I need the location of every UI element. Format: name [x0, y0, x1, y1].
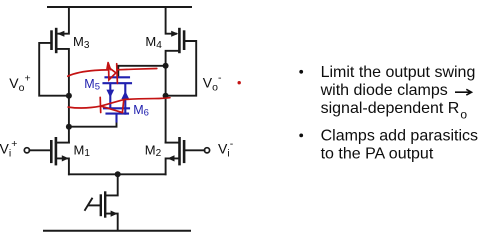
transistor M1 gate bar	[50, 141, 53, 162]
wire Vi+ terminal to M1 gate	[29, 149, 51, 151]
wire M1 source to tail node	[56, 158, 69, 174]
transistor M5 source wire down	[109, 84, 111, 108]
transistor M2 channel bar	[178, 138, 181, 164]
transistor M3 channel bar	[55, 29, 58, 52]
transistor M5 channel bar	[106, 76, 130, 78]
transistor M4 source arrow (PMOS)	[171, 31, 178, 37]
svg-text:to the PA output: to the PA output	[321, 146, 434, 163]
junction dot tail node	[115, 171, 121, 177]
wire M3 gate to Vo+ node	[39, 43, 69, 96]
tail gate bias slash	[85, 199, 92, 210]
transistor M4 channel bar	[178, 29, 181, 52]
tail transistor source arrow (NMOS)	[111, 211, 118, 217]
tail transistor channel bar	[104, 193, 106, 217]
red diode D2 right edge	[122, 100, 123, 113]
svg-text:Limit the output swing: Limit the output swing	[321, 64, 476, 81]
input terminal Vi-	[204, 148, 209, 153]
svg-text:M5: M5	[84, 77, 100, 93]
red diode D1 cathode bar	[116, 64, 119, 84]
svg-text:M4: M4	[145, 34, 162, 51]
transistor M2 source arrow (NMOS)	[168, 155, 175, 161]
wire tail node joining sources	[69, 173, 166, 175]
input terminal Vi+	[24, 148, 29, 153]
wire clamp bottom to Vo+ column	[69, 121, 117, 127]
wire M2 source to tail node	[166, 158, 180, 174]
svg-text:Vi+: Vi+	[0, 138, 17, 160]
red stroke upper line right part	[117, 69, 157, 70]
wire VDD to M3 source	[59, 7, 69, 34]
transistor M4 gate bar	[183, 32, 186, 49]
svg-text:signal-dependent Ro: signal-dependent Ro	[321, 100, 468, 121]
wire M1 drain	[56, 142, 69, 144]
junction dot Vo+ clamp node	[66, 124, 72, 130]
bullet 1 marker	[299, 70, 303, 74]
bullet 2 marker	[299, 134, 303, 138]
VDD rail	[48, 6, 191, 8]
red diode D2 cathode bar	[99, 97, 102, 112]
tail transistor gate bar	[100, 196, 102, 216]
arrow glyph in bullet text	[455, 89, 472, 95]
red diode D1 lead-in	[107, 63, 111, 70]
svg-text:M1: M1	[74, 142, 91, 159]
svg-text:M2: M2	[145, 142, 162, 159]
svg-text:Clamps add parasitics: Clamps add parasitics	[321, 128, 478, 145]
red annotation dot	[238, 81, 241, 84]
red stroke upper long line left part	[68, 70, 109, 76]
wire M3 drain down left column	[56, 49, 69, 143]
transistor M6 source wire up	[124, 84, 126, 114]
transistor M1 channel bar	[55, 138, 58, 164]
junction dot Vo+ node	[66, 93, 72, 99]
transistor M2 gate bar	[183, 141, 186, 162]
VSS rail	[44, 230, 190, 232]
wire tail node to tail transistor drain	[105, 174, 118, 195]
svg-text:Vo-: Vo-	[203, 72, 222, 94]
red diode D2 bottom edge	[101, 106, 122, 112]
wire clamp top to Vo- column	[118, 66, 165, 77]
junction dot Vo- node	[163, 93, 169, 99]
junction dot Vo- clamp top node	[163, 63, 169, 69]
transistor M5 gate bar	[104, 82, 132, 84]
svg-text:Vo+: Vo+	[9, 73, 30, 95]
transistor M6 arrow up	[121, 91, 129, 99]
wire M4 gate to Vo- node	[166, 41, 197, 96]
wire M4 drain down right column	[166, 51, 180, 143]
svg-text:with diode clamps: with diode clamps	[320, 82, 448, 99]
wire M2 drain	[166, 142, 180, 144]
transistor M3 gate bar	[50, 32, 53, 49]
red annotation: hand-drawn diodes over M5/M6	[68, 63, 170, 113]
clamp transistors M5 M6 (blue)	[104, 77, 132, 121]
clamp bottom stub	[115, 114, 117, 122]
wire VDD to M4 source	[166, 7, 176, 34]
transistor M6 gate bar	[104, 107, 129, 109]
svg-text:Vi-: Vi-	[218, 138, 234, 160]
wire tail source to VSS rail	[105, 214, 118, 231]
wire tail gate bias stub	[89, 204, 101, 206]
red stroke lower long line left part	[68, 106, 101, 108]
transistor M5 arrow down	[106, 90, 114, 98]
svg-text:M6: M6	[133, 103, 149, 119]
transistor M1 source arrow (NMOS)	[62, 155, 69, 161]
svg-text:M3: M3	[73, 34, 90, 51]
red diode D2 top edge / lower line middle	[101, 100, 124, 107]
transistor M6 channel bar	[107, 113, 129, 115]
wire Vi- terminal to M2 gate	[184, 149, 205, 151]
transistor M3 source arrow (PMOS)	[57, 31, 64, 37]
red stroke lower long line right part	[124, 98, 170, 100]
red diode D1 triangle	[109, 67, 116, 80]
